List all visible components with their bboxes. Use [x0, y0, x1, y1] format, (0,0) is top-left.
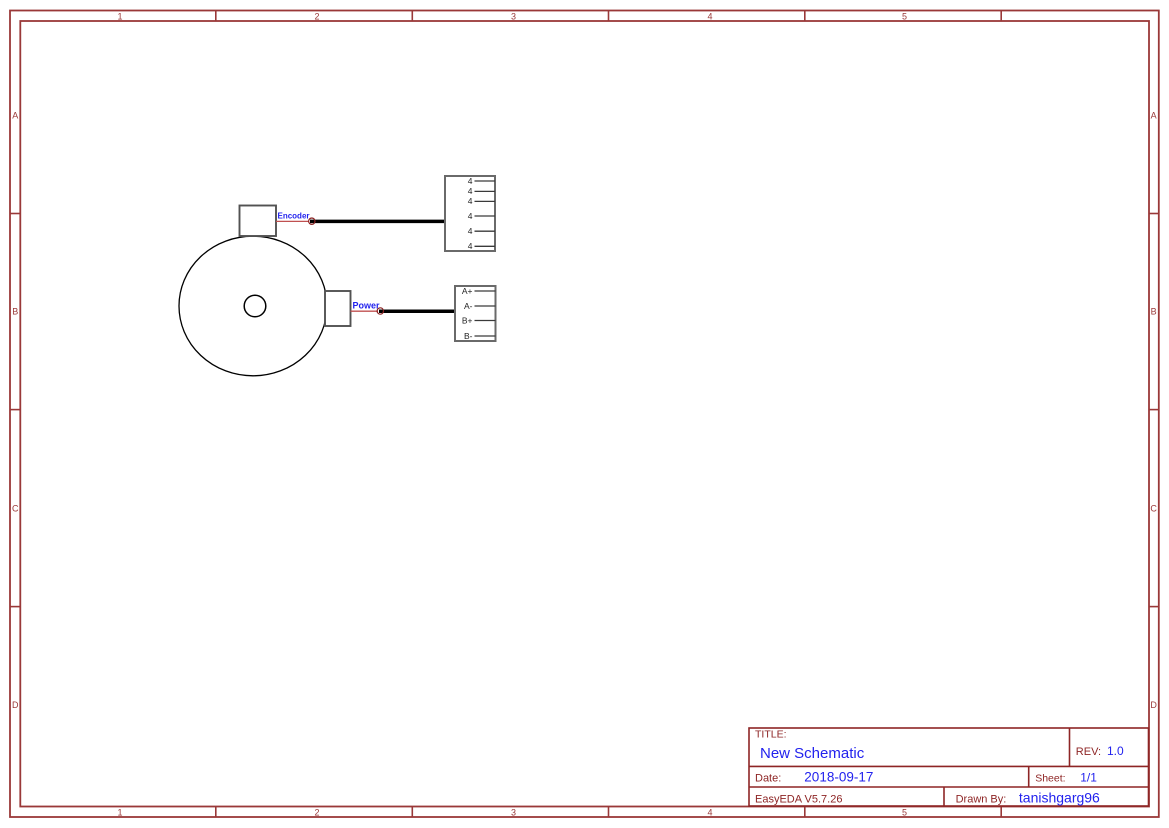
svg-text:1: 1 [117, 808, 122, 818]
right margin row letters [1150, 110, 1157, 710]
svg-text:A-: A- [464, 301, 473, 311]
connector J1 pin 3 line [475, 200, 496, 202]
svg-text:C: C [12, 503, 19, 513]
bottom margin column ticks [216, 807, 1001, 818]
svg-text:5: 5 [902, 808, 907, 818]
title block divider easyeda/drawnby [943, 787, 945, 806]
svg-text:4: 4 [468, 186, 473, 196]
svg-text:Sheet:: Sheet: [1035, 772, 1065, 784]
motor M1 power terminal box [325, 291, 351, 326]
top margin column numbers [117, 11, 907, 21]
connector J2 (power header) body [455, 286, 496, 341]
svg-text:B-: B- [464, 331, 473, 341]
port stub wire Encoder (red) [276, 220, 309, 222]
svg-text:New Schematic: New Schematic [760, 745, 865, 762]
svg-text:4: 4 [468, 196, 473, 206]
wire: encoder bus to connector [310, 220, 446, 224]
svg-text:2: 2 [314, 808, 319, 818]
svg-text:1/1: 1/1 [1080, 770, 1097, 784]
wire: power bus to connector [379, 309, 456, 313]
connector J2 pin B- line [475, 335, 496, 337]
title block row separator 2 [749, 786, 1149, 788]
svg-text:4: 4 [468, 176, 473, 186]
connector J1 (encoder header) body [445, 176, 495, 251]
title block outline [749, 728, 1149, 806]
svg-text:2: 2 [314, 11, 319, 21]
title block divider title/rev [1069, 728, 1071, 766]
svg-text:4: 4 [707, 808, 712, 818]
connector J1 pin 1 line [475, 180, 496, 182]
connector J2 pin B+ line [475, 320, 496, 322]
top margin column ticks [216, 11, 1001, 22]
left margin row letters [12, 110, 19, 710]
motor M1 body (ellipse) [179, 236, 327, 376]
svg-text:B: B [12, 306, 18, 316]
svg-text:1.0: 1.0 [1107, 744, 1124, 758]
svg-text:Encoder: Encoder [278, 212, 310, 221]
svg-text:3: 3 [511, 808, 516, 818]
svg-text:4: 4 [707, 11, 712, 21]
svg-text:tanishgarg96: tanishgarg96 [1019, 790, 1100, 806]
svg-text:3: 3 [511, 11, 516, 21]
title block row separator 1 [749, 765, 1149, 767]
svg-text:2018-09-17: 2018-09-17 [804, 769, 873, 784]
left margin row ticks [10, 214, 20, 607]
bottom margin column numbers [117, 808, 907, 818]
svg-text:A+: A+ [462, 286, 473, 296]
svg-text:4: 4 [468, 226, 473, 236]
svg-text:C: C [1150, 503, 1157, 513]
connector J1 pin 5 line [475, 230, 496, 232]
title block divider date/sheet [1028, 766, 1030, 787]
svg-text:B+: B+ [462, 315, 473, 325]
svg-text:EasyEDA V5.7.26: EasyEDA V5.7.26 [755, 794, 842, 806]
svg-text:D: D [1150, 700, 1157, 710]
connector J1 pin 2 line [475, 190, 496, 192]
svg-text:TITLE:: TITLE: [755, 729, 787, 741]
svg-text:A: A [12, 110, 18, 120]
connector J2 pin A+ line [475, 290, 496, 292]
svg-text:A: A [1151, 110, 1157, 120]
svg-text:D: D [12, 700, 19, 710]
right margin row ticks [1149, 214, 1159, 607]
port stub wire Power (red) [351, 310, 379, 312]
port node ring at Encoder [309, 218, 315, 224]
svg-text:1: 1 [117, 11, 122, 21]
connector J2 pin A- line [475, 305, 496, 307]
svg-text:Date:: Date: [755, 772, 781, 784]
motor M1 shaft circle [244, 295, 266, 317]
svg-text:4: 4 [468, 241, 473, 251]
motor M1 encoder terminal box [240, 206, 277, 237]
connector J1 pin 6 line [475, 245, 496, 247]
connector J1 pin 4 line [475, 215, 496, 217]
svg-text:Drawn By:: Drawn By: [956, 794, 1007, 806]
svg-text:4: 4 [468, 211, 473, 221]
svg-text:5: 5 [902, 11, 907, 21]
svg-text:B: B [1151, 306, 1157, 316]
svg-text:Power: Power [353, 301, 381, 311]
svg-text:REV:: REV: [1076, 746, 1101, 758]
port node ring at Power [377, 308, 383, 314]
